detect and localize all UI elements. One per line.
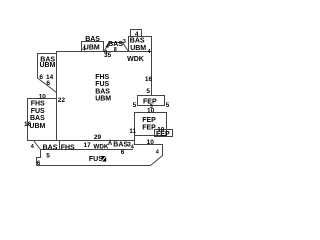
svg-text:10: 10 [147,139,155,146]
svg-text:FHS: FHS [95,74,109,81]
svg-text:FEP: FEP [156,131,170,138]
section outline: lower-left FHS/FUS/BAS/UBM box [28,99,57,141]
svg-text:FUS: FUS [95,81,109,88]
svg-text:UBM: UBM [84,44,100,51]
svg-text:5: 5 [46,152,50,159]
svg-text:FEP: FEP [142,124,156,131]
svg-text:FEP: FEP [142,117,156,124]
wall: bottom-left corner cut and steps [34,141,41,166]
svg-text:22: 22 [58,97,66,104]
svg-text:3: 3 [123,39,126,45]
svg-text:UBM: UBM [95,95,111,102]
svg-text:6: 6 [37,160,41,167]
svg-text:6: 6 [121,149,125,156]
svg-text:29: 29 [94,134,102,141]
section outline: top box T1 BAS/UBM [82,42,104,52]
svg-text:4: 4 [135,31,139,38]
svg-text:5: 5 [166,102,170,109]
wall: main left wall [56,52,58,141]
svg-text:3: 3 [127,141,131,148]
svg-text:UBM: UBM [29,123,45,130]
section outline: small box T3 above T2 [131,30,142,37]
svg-text:17: 17 [84,142,92,149]
svg-text:BAS: BAS [113,142,128,149]
section outline: FEP box 1 [138,96,165,106]
svg-text:BAS: BAS [85,36,100,43]
svg-text:16: 16 [145,76,153,83]
svg-text:6: 6 [46,80,50,87]
svg-text:UBM: UBM [40,62,56,69]
svg-text:FUS: FUS [31,108,45,115]
section outline: top-right box T2 BAS/UBM [129,37,152,52]
svg-text:WDK: WDK [127,56,144,63]
svg-text:FUS: FUS [89,156,103,163]
svg-text:8: 8 [114,47,117,53]
svg-text:BAS: BAS [30,115,45,122]
wall: bottom strip upper line [34,140,135,142]
wall: bottom edge [37,165,151,167]
svg-text:10: 10 [39,94,47,101]
wall: bottom strip lower line [41,149,134,151]
svg-text:WDK: WDK [93,143,108,150]
wall: main right wall [151,52,153,96]
wall: bottom-right corner cut and right connector [135,136,163,166]
svg-text:FHS: FHS [31,101,45,108]
svg-text:BAS: BAS [95,88,110,95]
section outline: upper-left BAS/UBM wing [38,54,57,93]
svg-text:35: 35 [104,52,112,59]
section outline: FEP box 3 [155,130,173,137]
svg-text:UBM: UBM [130,45,146,52]
svg-text:5: 5 [133,102,137,109]
section outline: top bay BAS [104,43,129,52]
section outline: FEP box 2 [135,113,167,136]
svg-text:FHS: FHS [61,144,75,151]
svg-text:5: 5 [146,88,150,95]
wall: divider between BAS and FHS [59,141,61,150]
svg-text:6: 6 [39,74,43,81]
wall: main top wall [56,51,152,53]
svg-text:BAS: BAS [130,38,145,45]
svg-text:BAS: BAS [43,144,58,151]
marker: caret on strip line [109,141,112,146]
svg-text:10: 10 [147,107,155,114]
svg-text:11: 11 [129,128,136,135]
marker: small dark square after FUS [102,156,107,162]
